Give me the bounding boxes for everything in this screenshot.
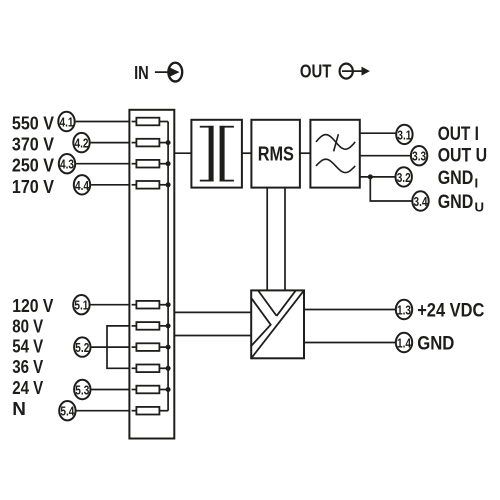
wire filter to 3.3 (360, 155, 411, 157)
resistor R5.2 (132, 322, 169, 330)
terminal 1.3 (396, 300, 412, 319)
output filter U2 (310, 120, 359, 188)
RMS converter U1 (251, 120, 300, 188)
svg-text:IN: IN (134, 62, 149, 83)
junction (166, 345, 171, 350)
output arrow symbol (340, 64, 370, 79)
label GND U (438, 192, 484, 215)
wire junction to 3.4 (370, 177, 412, 201)
wire terminal 4.2 to resistor (91, 142, 130, 144)
wire terminal 5.4 to resistor (77, 410, 130, 412)
DC/DC converter U3 (251, 290, 304, 358)
svg-text:4.2: 4.2 (75, 136, 89, 151)
junction (166, 366, 171, 371)
svg-text:1.3: 1.3 (397, 303, 411, 318)
terminal 3.4 (412, 191, 428, 210)
svg-text:250 V: 250 V (12, 156, 54, 177)
wire terminal 4.3 to resistor (76, 163, 129, 165)
wire DC/DC to 1.4 (304, 342, 395, 344)
svg-text:OUT I: OUT I (438, 124, 479, 145)
junction (166, 302, 171, 307)
bus wire inside terminal block (167, 122, 169, 411)
junction (166, 182, 171, 187)
svg-text:4.1: 4.1 (60, 115, 74, 130)
svg-text:120 V: 120 V (12, 296, 54, 317)
terminal 5.1 (73, 295, 89, 314)
svg-text:3.1: 3.1 (397, 127, 411, 142)
resistor R4.1 (132, 118, 169, 126)
wire RMS to DC/DC right (284, 188, 286, 291)
svg-text:OUT U: OUT U (438, 145, 487, 166)
terminal 3.1 (396, 125, 412, 144)
svg-text:N: N (12, 399, 26, 420)
svg-text:36 V: 36 V (12, 357, 43, 378)
label GND I (438, 168, 478, 191)
svg-text:5.1: 5.1 (74, 298, 88, 313)
resistor R4.3 (132, 160, 169, 168)
junction (166, 161, 171, 166)
svg-text:+24 VDC: +24 VDC (417, 300, 484, 321)
wire RMS to filter (300, 152, 311, 154)
wire block to DC/DC lower (174, 335, 251, 337)
svg-text:U: U (475, 200, 485, 215)
wire terminal 4.1 to resistor (76, 121, 130, 123)
svg-text:4.4: 4.4 (75, 178, 90, 193)
terminal 3.2 (396, 167, 412, 186)
svg-text:RMS: RMS (258, 142, 294, 165)
resistor R4.4 (132, 181, 169, 189)
svg-text:550 V: 550 V (12, 114, 54, 135)
input arrow symbol (155, 63, 182, 82)
resistor R5.3 (132, 343, 169, 351)
terminal 4.1 (58, 112, 74, 131)
junction GND (368, 174, 373, 179)
transformer T1 (191, 120, 242, 188)
svg-text:3.4: 3.4 (414, 194, 429, 209)
wire filter to 3.1 (360, 132, 396, 134)
svg-text:54 V: 54 V (12, 337, 43, 358)
junction (166, 387, 171, 392)
svg-text:370 V: 370 V (12, 135, 54, 156)
svg-text:I: I (475, 175, 479, 190)
svg-text:5.4: 5.4 (60, 404, 75, 419)
terminal 1.4 (396, 333, 412, 352)
junction (166, 323, 171, 328)
svg-text:OUT: OUT (300, 62, 332, 83)
svg-text:170 V: 170 V (12, 177, 54, 198)
svg-text:3.3: 3.3 (412, 149, 426, 164)
terminal block connector (129, 110, 174, 439)
terminal 5.3 (74, 380, 90, 399)
wire DC/DC to 1.3 (304, 309, 395, 311)
svg-text:5.3: 5.3 (75, 383, 89, 398)
wire RMS to DC/DC left (266, 188, 268, 291)
terminal 5.2 (74, 337, 90, 356)
junction (166, 140, 171, 145)
terminal 4.4 (74, 175, 90, 194)
svg-text:3.2: 3.2 (397, 170, 411, 185)
resistor R5.5 (132, 386, 169, 394)
resistor R5.6 (132, 407, 169, 415)
resistor R5.4 (132, 365, 169, 373)
wire filter to 3.2 (360, 176, 396, 178)
terminal 4.2 (73, 133, 89, 152)
svg-text:5.2: 5.2 (75, 340, 89, 355)
svg-text:1.4: 1.4 (397, 336, 412, 351)
terminal 4.3 (59, 154, 75, 173)
wire block to transformer (174, 152, 191, 154)
wire terminal 5.3 to resistor (91, 389, 129, 391)
wire block to DC/DC upper (174, 311, 251, 313)
terminal 3.3 (411, 146, 427, 165)
svg-text:GND: GND (438, 168, 474, 189)
svg-text:24 V: 24 V (12, 378, 43, 399)
svg-text:GND: GND (417, 333, 454, 354)
svg-text:GND: GND (438, 192, 474, 213)
resistor R5.1 (132, 301, 169, 309)
terminal 5.4 (59, 401, 75, 420)
resistor R4.2 (132, 139, 169, 147)
wire terminal 4.4 to resistor (91, 184, 129, 186)
wire terminal 5.1 to resistor (91, 304, 130, 306)
svg-text:4.3: 4.3 (60, 157, 74, 172)
wire transformer to RMS (242, 152, 252, 154)
wire terminal 5.2 to resistor (91, 346, 129, 348)
svg-text:80 V: 80 V (12, 316, 43, 337)
bracket wire 80V/36V tap (107, 326, 129, 368)
